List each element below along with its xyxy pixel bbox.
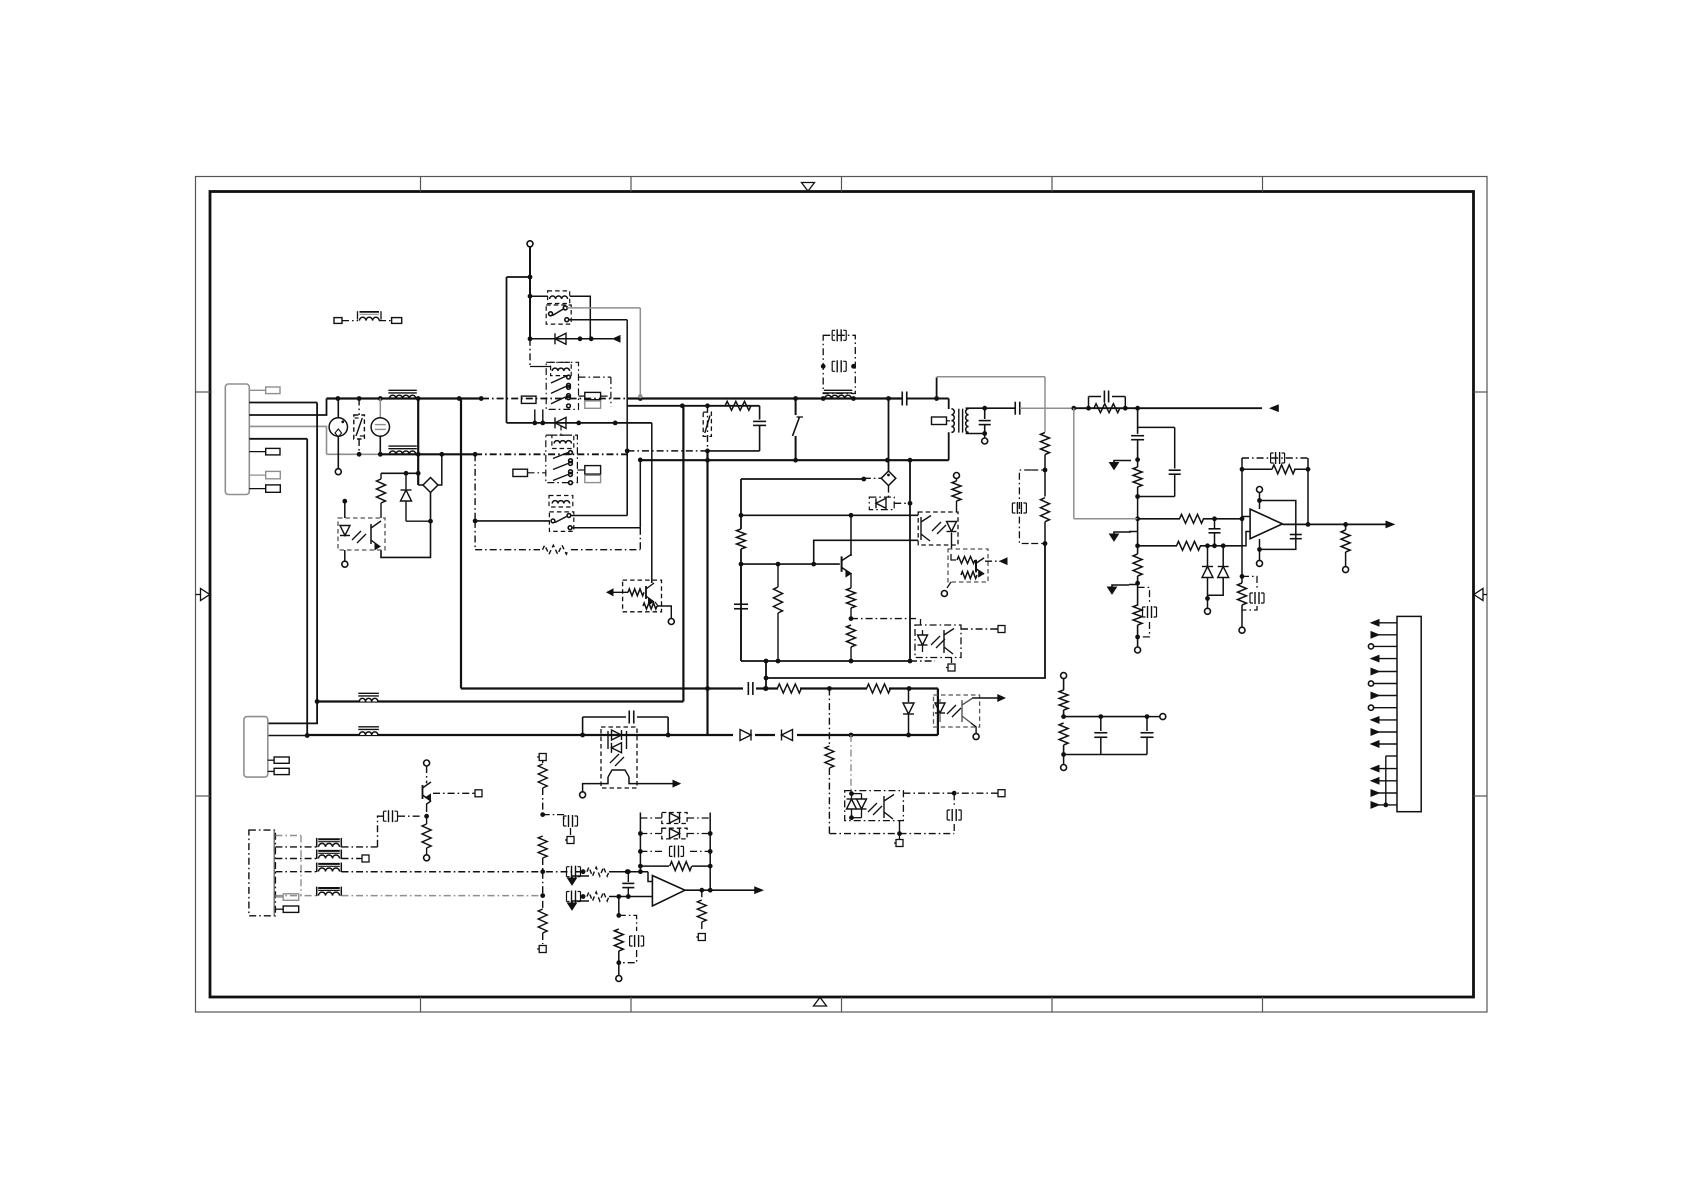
connector CN1 [225, 384, 249, 495]
terminal fuse bottom [335, 469, 341, 475]
resistor R21 column [1133, 546, 1142, 586]
transistor Q1 [842, 515, 852, 576]
wire filter output vertical [417, 399, 419, 455]
transformer T4 [275, 863, 341, 873]
wire sense row lower [1135, 519, 1242, 548]
wire right rail [909, 460, 911, 661]
inductor L2 (choke bottom) [389, 451, 415, 454]
wire AC neutral bus [327, 453, 629, 455]
resistor R6 [1041, 455, 1050, 546]
pin CN4-12 [1371, 765, 1397, 771]
wire RL1 nc-contact [569, 320, 627, 516]
transformer T5 [275, 887, 542, 897]
frame marker triangle top [802, 183, 815, 192]
wire T2 riser [378, 810, 430, 847]
wire grey top loop [937, 377, 1045, 432]
pin stub CN1-1 [249, 387, 280, 394]
terminal PC4 bottom [946, 658, 955, 672]
wire column down [766, 544, 1045, 679]
zener ZD2 [1208, 546, 1229, 595]
wire CN1 pin5 to vertical [249, 438, 307, 440]
capacitor C3 series [901, 392, 903, 406]
terminal RC bottom [1061, 755, 1067, 771]
thermal switch TS1 [793, 399, 804, 461]
pin CN4-4 [1371, 655, 1397, 661]
wire U1 feedback rails [638, 813, 713, 891]
wire U2 power loop [1257, 487, 1302, 567]
opto-coupler PC3 [918, 512, 958, 545]
diode D4 [733, 728, 755, 742]
transformer T1 [932, 378, 969, 461]
transformer T2 [275, 838, 377, 848]
capacitor C2 [753, 406, 766, 451]
capacitor C20 between inputs [622, 869, 634, 899]
resistor R2 (inrush) [377, 473, 386, 518]
relay RL2 aux rects [521, 377, 611, 408]
resistor R11 emitter [847, 573, 856, 621]
wire D inductor feed [315, 699, 684, 704]
varistor VZ1 [354, 399, 365, 455]
wire cap to transformer [907, 398, 949, 400]
relay RL3 assembly [546, 426, 578, 485]
connector CN4 [1397, 616, 1421, 811]
resistor R20 [1177, 540, 1201, 551]
wire U2 plus input [1242, 519, 1250, 546]
resistor R25 column [537, 754, 547, 817]
wire RL3 feed vertical [474, 454, 476, 521]
resistor R18 [1133, 460, 1142, 521]
opto-triac PC2 [601, 727, 637, 788]
wire U2 output [1282, 521, 1394, 527]
border frame inner [210, 192, 1474, 998]
ground G3 [1108, 585, 1138, 595]
op-amp U1 [648, 872, 685, 906]
terminal RC right [1147, 716, 1160, 718]
pin CN4-6 [1368, 681, 1397, 686]
node bus dots [336, 396, 891, 401]
transistor Q3 box [947, 549, 1007, 588]
frame marker triangle bottom [814, 997, 827, 1006]
pin CN4-14 [1371, 790, 1397, 796]
pin CN4-11 [1371, 741, 1397, 747]
pin CN4-5 [1371, 668, 1397, 674]
wire SW1 common [475, 520, 549, 522]
wire loop thermistor bottom [381, 493, 431, 558]
wire CN4 ground bus [1383, 756, 1397, 807]
wire RL2 stubs to bus [532, 409, 545, 425]
terminal Q2 emitter [668, 619, 674, 625]
capacitor C18 input [567, 866, 586, 878]
inductor L1 (choke top) [389, 395, 415, 398]
resistor R28 dashed [587, 867, 648, 876]
resistor R26 column [538, 836, 547, 872]
wire opto C feed [851, 618, 916, 620]
wire PC3 cathode [951, 533, 953, 549]
capacitor C13 [1131, 408, 1144, 440]
wire CN3 grey loop [275, 836, 301, 896]
wire sense row upper [1074, 516, 1245, 521]
resistor R7 [777, 683, 801, 694]
switch SW1 (coil) [549, 496, 573, 508]
wire snubber top [381, 472, 418, 474]
terminal Q3 [941, 591, 947, 597]
transformer T3 [275, 850, 369, 863]
inductor L6 [358, 727, 379, 735]
frame marker triangle right [1474, 589, 1487, 601]
terminal column bottom [1135, 647, 1141, 653]
wire CN1 pin4 neutral [249, 426, 326, 454]
pin CN3 rect B [275, 906, 298, 912]
pin CN4-1 [1371, 620, 1397, 626]
pin CN2-4 [268, 768, 289, 774]
relay RL1 coil [530, 291, 590, 339]
wire U2 minus input [1242, 516, 1250, 518]
terminal PC1 bottom [342, 561, 348, 567]
wire switch bypass [507, 422, 652, 424]
inductor L4 on bus [825, 395, 851, 398]
resistor R5 [1041, 433, 1050, 473]
wire opto PC1 anode [342, 499, 347, 518]
wire inner box top rail [741, 477, 881, 482]
wire inner box left rail [739, 479, 744, 661]
capacitor C4 [966, 408, 990, 438]
ground G1 [1110, 440, 1141, 470]
resistor R10 [774, 564, 783, 661]
wire U2 plus RC [1238, 546, 1265, 633]
terminal secondary [982, 438, 988, 444]
opto-coupler PC1 [338, 518, 385, 550]
wire vertical CN1-2 to CN2 [268, 403, 317, 724]
wire RC mid [1064, 716, 1147, 718]
resistor R14 dashed [825, 689, 834, 834]
wire U1 minus lower RC [614, 897, 643, 982]
wire relay left branch [507, 276, 531, 278]
resistor R12 [847, 625, 856, 661]
wire C return rail [268, 733, 938, 738]
wire SW1 no [572, 449, 630, 516]
pin stub CN1-7 [249, 485, 280, 492]
wire collector feed [741, 514, 918, 516]
wire relay left vertical [506, 277, 508, 423]
transistor Q4 [423, 760, 483, 812]
wire inner box bottom rail [741, 659, 935, 664]
wire U1 output [685, 887, 763, 893]
ground G4 [572, 876, 589, 878]
wire sense bus T4 [342, 871, 584, 873]
wire U2 feedback [1240, 452, 1311, 524]
wire CN1 pin3 live [249, 399, 326, 416]
pin stub CN1-5 [249, 448, 280, 455]
opto-coupler PC5 [934, 695, 980, 727]
wire B down right [937, 689, 939, 736]
diamond thermistor TH1 [418, 454, 442, 492]
capacitor CX1 (line filter) [371, 399, 389, 455]
frame tick marks [196, 177, 1488, 1013]
wire output rail [1074, 407, 1262, 409]
wire column riser [764, 659, 769, 691]
capacitor C21 feedback [640, 845, 710, 857]
wire RC bottom [1064, 754, 1147, 756]
resistor R22 and capacitor C16 [1133, 576, 1156, 647]
wire opto PC1 cathode [344, 550, 346, 561]
resistor R13 [952, 473, 961, 513]
wire AC live bus dash-dot segment [482, 398, 628, 400]
terminal zener [1205, 598, 1211, 614]
connector CN3 [249, 830, 276, 916]
capacitor C10 dashed [947, 793, 961, 833]
resistor R17 with cap bridge [1089, 391, 1126, 413]
wire PC6 emitter return [829, 821, 954, 847]
op-amp U2 [1250, 509, 1282, 539]
ground G2 [1110, 519, 1138, 541]
wire snubber row [627, 405, 759, 407]
wire PC6 output [903, 790, 1005, 797]
capacitor C17 branch [543, 815, 578, 844]
capacitor C12 [1141, 717, 1154, 755]
ground G5 [572, 901, 589, 903]
pin CN4-2 [1371, 632, 1397, 638]
wire transformer return [640, 459, 948, 461]
wire base row [741, 563, 840, 565]
frame marker triangle left [196, 589, 210, 601]
inductor L3 (reference glyph) [334, 311, 402, 323]
wire secondary top [966, 406, 1015, 411]
wire PC5 output [972, 695, 1005, 701]
diode D2 relay [530, 333, 620, 344]
resistor R3 (dashed) [543, 545, 569, 554]
fuse F1 [329, 399, 347, 469]
wire CN1 pin2 to vertical [249, 402, 317, 404]
diamond thermistor TH2 [881, 399, 896, 498]
terminal PC5 emitter [971, 723, 979, 740]
varistor VZ2 [703, 412, 711, 436]
resistor R24 [422, 816, 431, 861]
wire PC3 base side [814, 540, 919, 564]
pin CN4-10 [1371, 729, 1397, 735]
capacitor C7 series [743, 682, 756, 695]
resistor R8 [867, 683, 891, 694]
capacitor C5 series [1014, 402, 1016, 415]
resistor R4 [725, 401, 751, 410]
wire RL1 no-contact grey [567, 308, 642, 399]
relay RL3 aux rects [513, 466, 601, 483]
pin CN4-15 [1371, 802, 1397, 808]
resistor R16 [1059, 723, 1068, 757]
capacitor C8 bridge [583, 711, 669, 736]
capacitor C11 [1094, 717, 1107, 755]
diode D1 [401, 473, 412, 521]
resistor R15 [1059, 690, 1068, 719]
wire snubber bottom [627, 449, 759, 454]
pin CN4-3 [1368, 644, 1397, 649]
resistor R9 [737, 529, 746, 549]
wire grey sense [1073, 408, 1075, 519]
capacitor C9 [734, 564, 748, 661]
connector CN2 [244, 717, 268, 778]
terminal relay supply [527, 241, 533, 247]
capacitor C15 [1209, 519, 1221, 546]
opto-coupler PC4 [915, 619, 961, 658]
wire secondary grey link [1020, 407, 1074, 409]
wire main vertical A [707, 406, 709, 451]
transistor Q2 box [607, 423, 671, 619]
relay RL2 assembly [530, 362, 579, 409]
wire relay supply vertical [529, 247, 531, 339]
pin CN2-3 [268, 757, 289, 763]
diode D3 [555, 417, 566, 428]
wire AC live bus [327, 397, 483, 399]
relay RL1 contact [546, 305, 571, 324]
resistor R31 output load [696, 890, 706, 940]
diode D5 [775, 728, 797, 742]
pin CN4-13 [1371, 778, 1397, 784]
diode D7 [903, 689, 914, 736]
resistor R27 column [537, 872, 547, 953]
wire RL3 lower loop [475, 521, 640, 550]
resistor R29 dashed [587, 892, 652, 901]
capacitor box CX2 [821, 329, 856, 393]
capacitor C19 input [567, 891, 586, 903]
border frame outer [196, 177, 1488, 1013]
zener ZD1 [1202, 546, 1213, 601]
pin CN3 rect A [275, 894, 298, 901]
capacitor C14 loop [1135, 427, 1181, 499]
wire big box left [460, 399, 462, 689]
wire vertical CN1-5 to CN2 [306, 439, 308, 736]
pin stub CN1-6 [249, 471, 280, 478]
diode D6 box [869, 497, 912, 510]
wire relay coil2 feed [529, 339, 531, 366]
wire diode to loop [406, 520, 431, 522]
wire PC2 collector [629, 777, 680, 787]
wire grey LED feed [850, 735, 852, 794]
terminal RC top [1061, 673, 1067, 690]
pin CN4-7 [1371, 692, 1397, 698]
wire big box right [682, 406, 684, 702]
node neutral dots [357, 452, 478, 457]
wire B power rail [461, 687, 938, 689]
capacitor C6 dashed box [1012, 470, 1045, 544]
wire SW1 nc [573, 458, 643, 528]
wire PC4 output [961, 626, 1005, 633]
opto-coupler PC6 [845, 791, 904, 821]
wire AC live bus right segment [628, 397, 902, 399]
resistor R19 [1180, 513, 1204, 524]
resistor R23 load [1341, 524, 1350, 572]
switch SW1 contact [549, 512, 573, 532]
diode D9 feedback box [640, 813, 710, 824]
inductor L5 [358, 693, 379, 701]
pin CN4-8 [1368, 705, 1397, 710]
wire filter output vertical lower [417, 454, 419, 485]
diode D10 feedback box [640, 828, 710, 839]
pin CN4-9 [1371, 717, 1397, 723]
resistor R30 feedback [640, 862, 710, 871]
wire PC2 emitter [580, 777, 608, 798]
